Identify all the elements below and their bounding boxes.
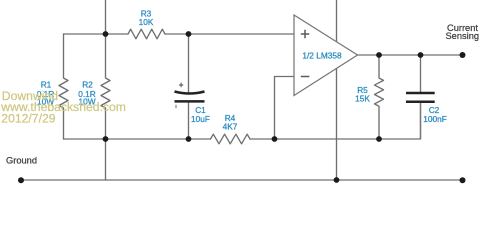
resistor R2 [101,34,110,139]
junction: R5 bottom on mid rail [376,136,382,142]
terminal: ground rail right end [460,177,466,183]
svg-text:15K: 15K [355,93,370,103]
junction: node at C1 top on non-inverting net [186,31,192,37]
resistor R1 [59,34,68,139]
svg-text:Sensing: Sensing [445,31,479,41]
capacitor C2 [406,93,435,139]
wire: C2 top lead [420,55,422,92]
junction: op-amp ground pin on ground rail [334,177,340,183]
wire: inverting input feedback line [275,77,295,140]
junction: node at R2 top / top feed [103,31,109,37]
wire: ground rail [21,179,463,181]
svg-text:4K7: 4K7 [223,121,238,131]
junction: C2 top on output net [418,52,424,58]
label R3 value [139,9,154,27]
resistor R4 [211,134,250,144]
pin marker: non-inverting + [301,30,310,39]
svg-text:10uF: 10uF [191,114,210,124]
junction: C1 bottom on mid rail [186,136,192,142]
wire: op-amp V+ pin line [336,0,338,42]
wire: C1 bottom lead [188,103,190,139]
wire: drop from mid rail to ground rail [105,139,107,180]
svg-text:R2: R2 [82,80,93,90]
node label: Current Sensing [445,23,479,41]
wire: C1 top lead [188,34,190,93]
label R1 value [37,80,55,107]
wire: mid rail from R1 bottom to R4 [64,138,211,140]
op-amp U1 1/2 LM358 [294,15,358,96]
svg-text:10K: 10K [139,17,154,27]
wire: C2 bottom lead [420,103,422,139]
resistor R3 [128,29,165,39]
polarity tick below C1 [175,105,177,108]
polarity + mark of C1 [179,83,183,87]
svg-text:100nF: 100nF [423,114,447,124]
wire: non-inverting net, left horizontal segment [64,33,129,35]
junction: inverting feedback node on mid rail [272,136,278,142]
terminal: current sensing output [460,52,466,58]
wire: output to current-sensing terminal [358,54,463,56]
junction: R5 top on output net [376,52,382,58]
wire: mid rail from R4 to C2 corner [250,103,421,139]
wire: top feed from supply into non-inverting net [105,0,107,34]
label R4 value [223,113,238,132]
label R5 value [355,85,370,104]
pin marker: inverting - [301,76,310,78]
svg-text:2012/7/29: 2012/7/29 [1,111,55,125]
terminal: ground rail left end [18,177,24,183]
wire: non-inverting net, segment from R3 to op-amp + input [165,33,294,35]
label C1 value [191,105,210,124]
watermark text [0,89,126,126]
junction: R2 bottom on mid rail [103,136,109,142]
resistor R5 [375,55,384,139]
label C2 value [423,105,447,124]
wire: op-amp ground pin line [336,69,338,181]
svg-text:1/2 LM358: 1/2 LM358 [302,50,342,60]
label R2 value [78,80,96,107]
svg-text:Ground: Ground [6,156,37,166]
capacitor C1 (electrolytic) [175,83,205,108]
